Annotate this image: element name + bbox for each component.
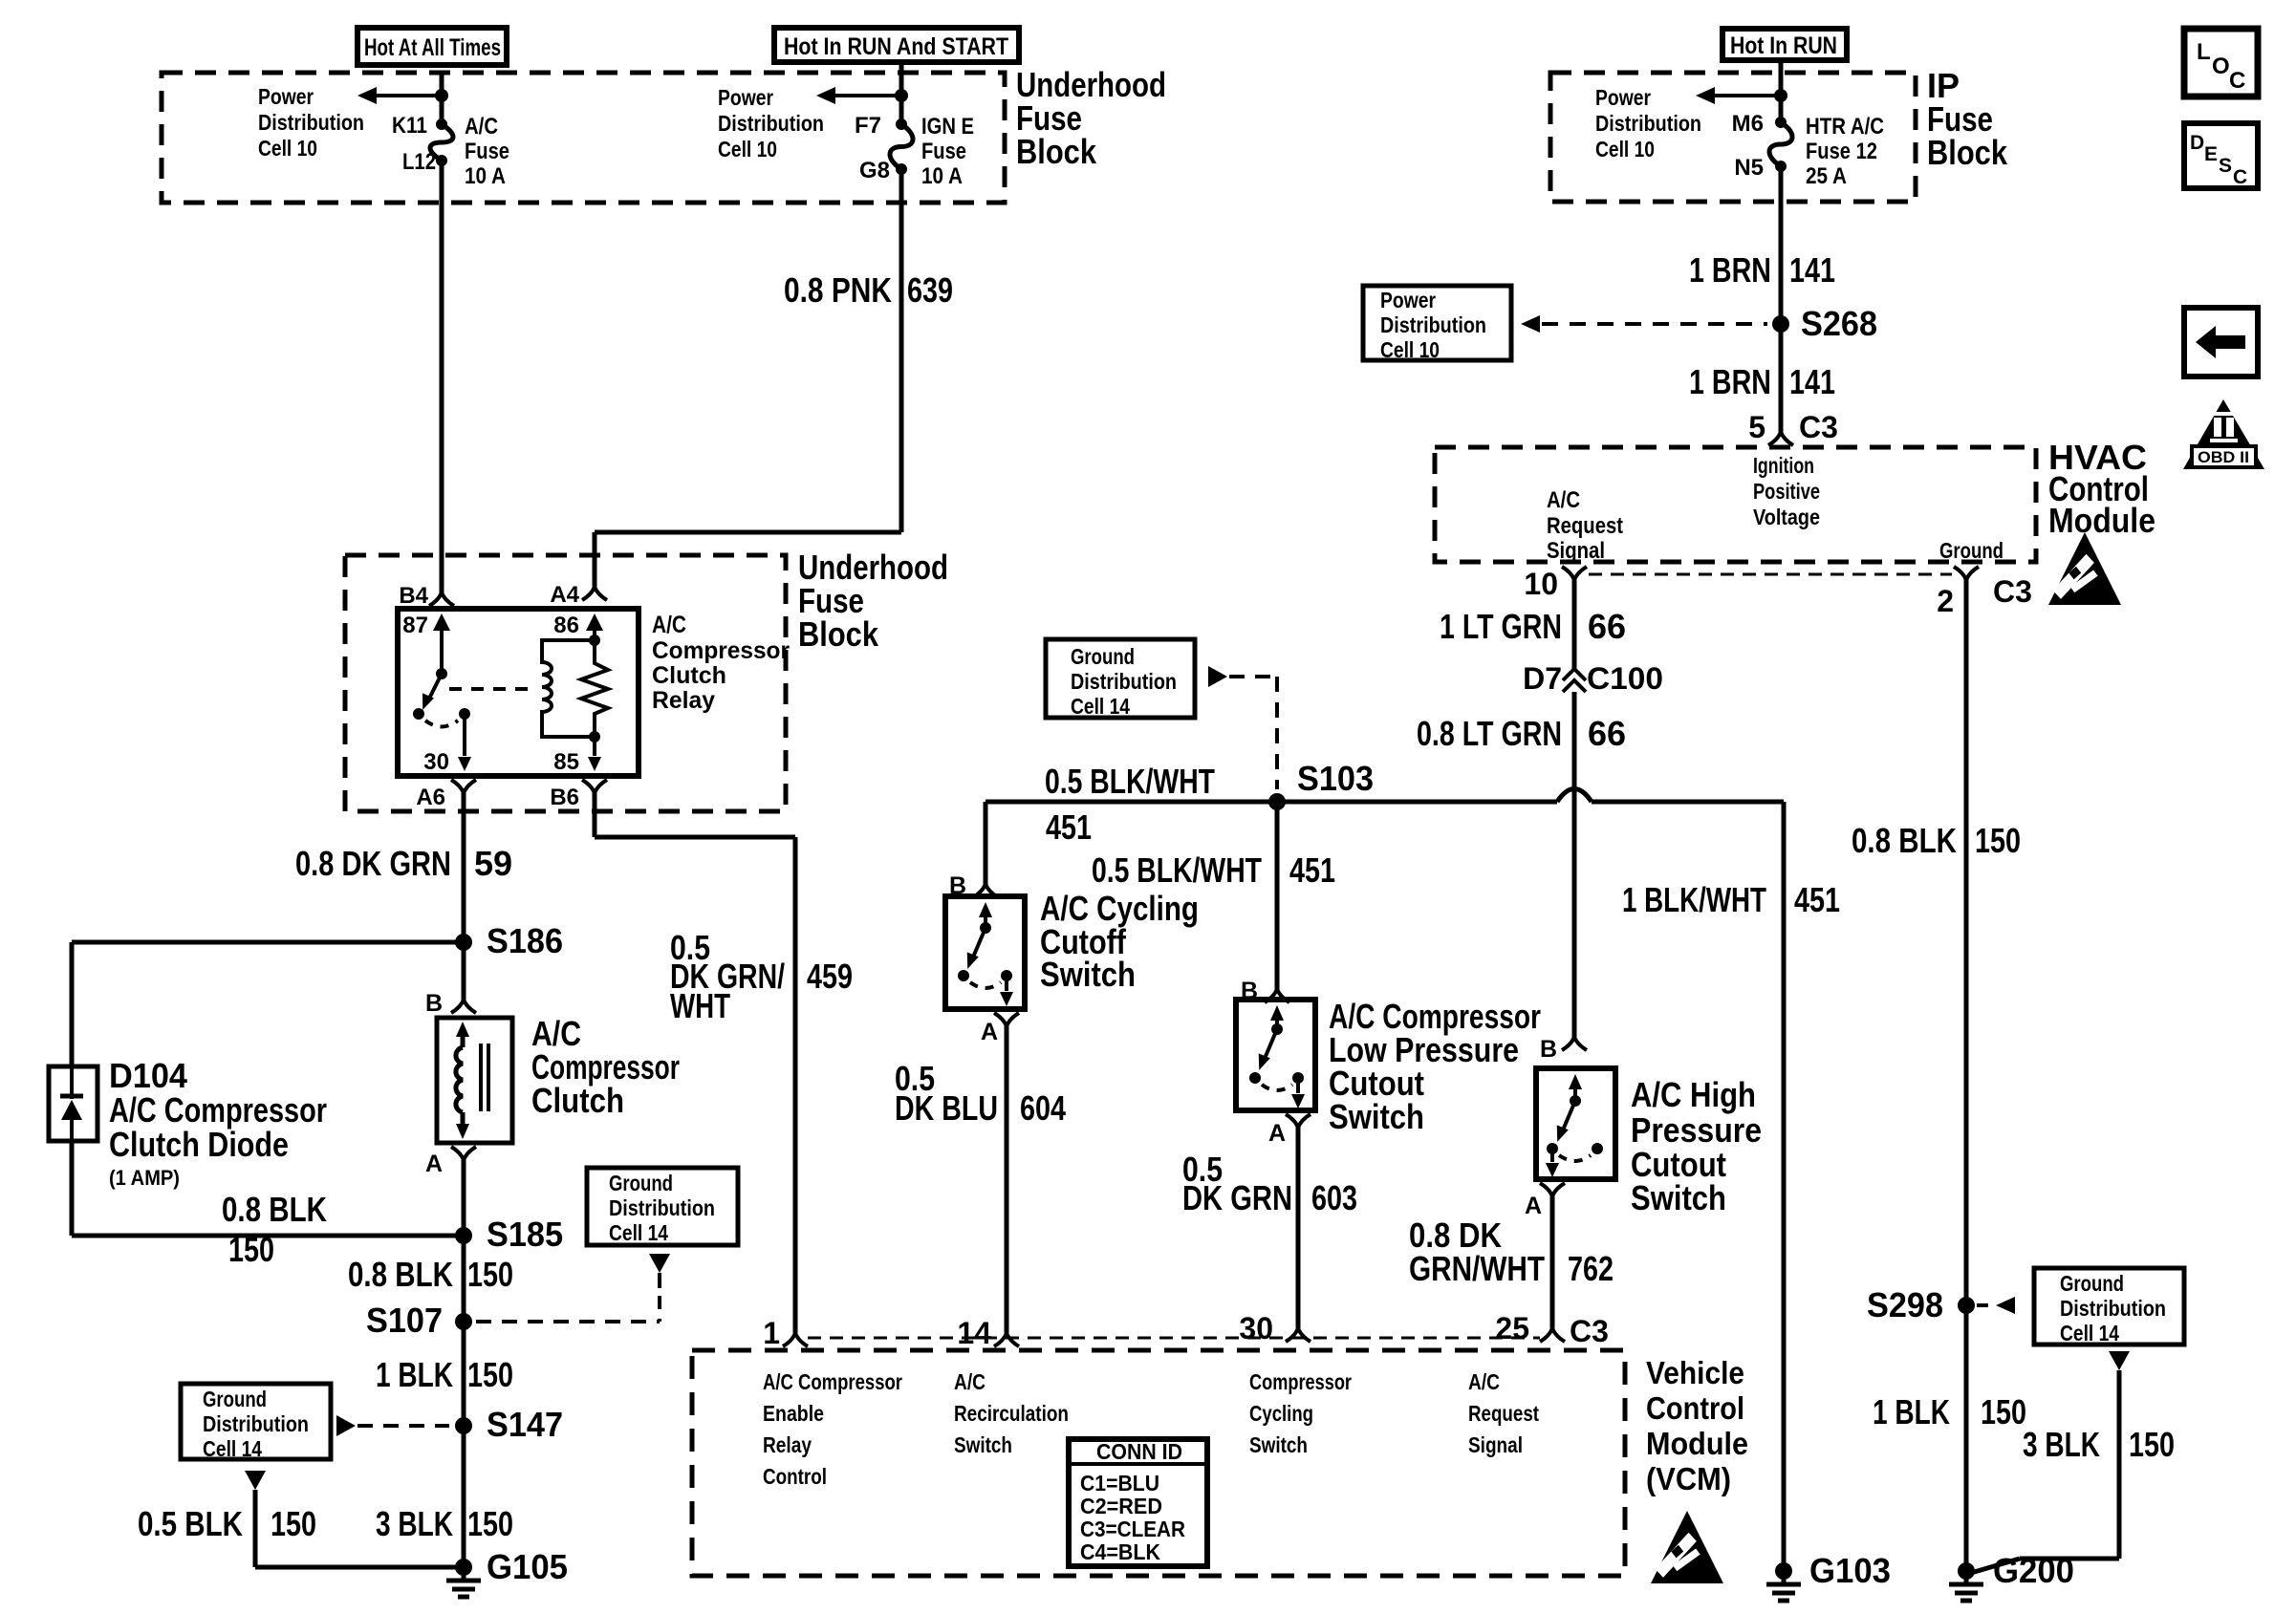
svg-text:B: B [1540,1036,1557,1063]
wire high pressure switch to VCM pin 25 (0.8 DK GRN/WHT 762) [1550,1196,1555,1328]
svg-text:Vehicle: Vehicle [1646,1355,1744,1390]
svg-text:Distribution: Distribution [1595,111,1701,136]
svg-text:Distribution: Distribution [1380,312,1486,337]
pin 10 connector [1562,567,1574,580]
svg-text:Clutch: Clutch [652,662,726,689]
wire junction to fuse pin K11 [440,96,444,124]
connector pin B low pressure switch [1265,989,1277,1002]
wire 0.8 PNK 639 from G8 to relay A4 [899,169,904,532]
wire junction to fuse pin M6 [1779,96,1784,122]
wire 0.8 BLK 150 HVAC pin 2 to S298 [1964,580,1969,1305]
fuse F-AC A/C Fuse 10A [436,118,447,130]
svg-text:S: S [2219,155,2232,177]
svg-text:141: 141 [1789,250,1835,290]
connector pin 25 C3 into VCM [1540,1328,1552,1342]
wire S298 to G200 (1 BLK 150) [1964,1305,1969,1571]
svg-text:Cell 10: Cell 10 [718,137,777,161]
svg-text:(1 AMP): (1 AMP) [109,1166,180,1190]
svg-text:Control: Control [1646,1390,1744,1426]
wire hot feed to A/C fuse [440,73,444,96]
wire hot feed to HTR A/C fuse [1779,60,1784,96]
svg-text:GRN/WHT: GRN/WHT [1409,1249,1545,1288]
svg-text:K11: K11 [392,113,427,139]
svg-text:0.5 BLK/WHT: 0.5 BLK/WHT [1092,850,1262,890]
svg-text:CONN ID: CONN ID [1096,1439,1182,1464]
splice S185 [455,1227,472,1244]
splice S268 [1772,315,1789,333]
dashed link S103 to ground distribution box [1208,666,1227,687]
label Hot At All Times [364,34,501,61]
label Hot In RUN And START [784,33,1008,60]
svg-text:2: 2 [1937,584,1954,618]
svg-text:DK GRN: DK GRN [1182,1178,1292,1217]
svg-text:66: 66 [1588,714,1626,753]
underhood fuse block dashed box [162,73,1005,203]
dashed link S147 to ground distribution box [336,1415,356,1436]
label Compressor Cycling Switch [1249,1369,1352,1457]
arrow to power distribution (IGN E) [835,94,901,97]
label A/C Request Signal (HVAC) [1547,487,1623,564]
reference box Ground Distribution Cell 14 (S298) [2034,1268,2184,1345]
clutch coil symbol [456,1022,469,1037]
svg-text:M6: M6 [1732,111,1764,137]
svg-text:30: 30 [1239,1311,1273,1345]
pin G8 [859,158,890,183]
svg-text:Ground: Ground [1939,538,2004,563]
svg-text:Switch: Switch [1249,1432,1308,1457]
svg-text:Compressor: Compressor [652,637,790,664]
svg-text:Module: Module [1646,1426,1748,1461]
svg-text:A/C: A/C [652,612,686,638]
inline connector C100 pin D7 [1563,669,1586,680]
svg-text:Ground: Ground [1071,644,1135,669]
label Underhood Fuse Block (relay) [798,548,948,654]
svg-text:150: 150 [1981,1392,2026,1431]
svg-text:A6: A6 [416,785,445,810]
relay pin 30 arrow [463,714,466,756]
underhood fuse block dashed box (relay) [345,555,786,811]
svg-text:A/C Compressor: A/C Compressor [109,1090,327,1130]
svg-text:Power: Power [258,84,314,109]
svg-text:Power: Power [1380,288,1436,312]
header box Hot In RUN [1722,29,1847,60]
svg-text:0.8 PNK: 0.8 PNK [784,270,892,310]
svg-text:C100: C100 [1587,661,1663,696]
splice S103 [1268,793,1286,810]
HVAC control module dashed box [1435,447,2036,562]
label D104 A/C Compressor Clutch Diode (1 AMP) [109,1056,327,1190]
svg-text:C3: C3 [1570,1314,1609,1348]
svg-text:Distribution: Distribution [2060,1296,2166,1321]
label 0.8 BLK 150 diode leg [222,1190,327,1269]
icon LOC box [2184,29,2258,97]
relay pin 85 arrow [593,737,596,756]
svg-text:Request: Request [1468,1401,1539,1426]
svg-text:639: 639 [907,270,953,310]
svg-text:OBD II: OBD II [2198,448,2249,466]
svg-text:C3=CLEAR: C3=CLEAR [1080,1517,1185,1541]
relay coil junction 85 [589,731,600,742]
relay mechanical link dashed [449,687,531,691]
svg-text:451: 451 [1289,850,1335,890]
svg-text:0.8 DK GRN: 0.8 DK GRN [295,844,451,883]
svg-text:Voltage: Voltage [1753,505,1820,529]
value label IGN E Fuse 10 A [921,114,974,189]
fuse F12 HTR A/C Fuse 25A [1775,117,1787,128]
svg-text:87: 87 [402,613,428,638]
svg-text:Distribution: Distribution [258,110,364,135]
connector pin A clutch [451,1147,464,1160]
svg-text:F7: F7 [855,113,881,139]
svg-text:G200: G200 [1993,1551,2074,1590]
svg-text:Cell 14: Cell 14 [1071,694,1130,719]
svg-text:G103: G103 [1809,1551,1891,1590]
VCM connector dashed line [808,1337,1540,1340]
svg-text:86: 86 [553,613,579,638]
wire A/C fuse L12 to relay B4 [440,161,444,592]
svg-text:10 A: 10 A [465,163,506,189]
svg-text:Recirculation: Recirculation [954,1401,1069,1426]
relay K-AC A/C Compressor Clutch Relay box [398,609,639,776]
svg-text:(VCM): (VCM) [1646,1461,1731,1496]
connector pin 14 into VCM [994,1333,1007,1346]
splice S186 [455,934,472,951]
reference box Ground Distribution Cell 14 (S147) [181,1384,331,1459]
svg-text:0.5 BLK: 0.5 BLK [138,1504,243,1543]
relay coil [542,640,595,737]
wire S186 branch to diode [72,940,464,945]
svg-text:150: 150 [228,1230,274,1269]
svg-text:HTR A/C: HTR A/C [1806,114,1884,140]
svg-text:D: D [2190,132,2204,154]
node junction at HTR A/C fuse [1774,89,1787,102]
svg-text:Fuse: Fuse [921,139,966,164]
label 0.5 BLK/WHT 451 left [1045,762,1215,847]
svg-text:Pressure: Pressure [1631,1110,1762,1150]
svg-text:A/C High: A/C High [1631,1075,1756,1114]
svg-text:G105: G105 [487,1547,568,1586]
svg-text:66: 66 [1588,607,1626,646]
vehicle control module dashed box [692,1350,1625,1576]
svg-text:A4: A4 [550,582,579,608]
svg-text:Switch: Switch [1329,1097,1424,1136]
relay switch common contact [436,668,447,679]
svg-text:Clutch: Clutch [531,1081,624,1120]
svg-text:Ignition: Ignition [1753,453,1814,478]
label A/C Compressor Clutch [531,1014,680,1120]
svg-text:Ground: Ground [203,1387,267,1411]
svg-text:A: A [1525,1193,1542,1219]
relay switch contact to pin 30 [413,708,424,720]
svg-text:59: 59 [474,844,512,883]
svg-text:A/C: A/C [954,1369,986,1394]
svg-text:B4: B4 [399,583,428,609]
svg-text:0.8 BLK: 0.8 BLK [348,1255,453,1294]
svg-text:Block: Block [1016,132,1097,171]
wire diode to S185 (0.8 BLK 150) [70,1141,75,1236]
svg-text:1 BLK: 1 BLK [1873,1392,1950,1431]
pin N5 [1734,155,1764,181]
svg-text:150: 150 [271,1504,316,1543]
svg-text:L: L [2197,39,2211,65]
svg-text:Request: Request [1547,513,1623,539]
connector pin A low pressure switch [1286,1114,1298,1128]
svg-text:S186: S186 [487,921,563,960]
svg-text:C: C [2233,166,2247,188]
high pressure switch contacts [1569,1074,1582,1089]
label A/C Compressor Low Pressure Cutout Switch [1329,997,1541,1136]
ESD symbol VCM [1651,1511,1723,1583]
svg-text:14: 14 [957,1316,991,1350]
svg-text:1 BRN: 1 BRN [1689,362,1771,401]
wire 1 BLK/WHT 451 to G103 [1782,802,1787,1571]
label IP Fuse Block [1927,66,2008,172]
svg-text:S298: S298 [1867,1285,1943,1324]
svg-text:150: 150 [467,1504,513,1543]
high pressure cutout switch box [1536,1068,1615,1179]
wire 0.8 LT GRN 66 to high pressure switch [1572,692,1577,1037]
svg-text:A: A [1268,1120,1286,1147]
label Hot In RUN [1730,32,1837,59]
svg-text:0.8 BLK: 0.8 BLK [222,1190,327,1229]
connector pin B clutch [451,1000,464,1013]
splice S147 [455,1417,472,1434]
wire S103 to low pressure switch (0.5 BLK/WHT 451) [1275,802,1280,989]
wire S107 to S147 (1 BLK 150) [462,1322,466,1426]
wire hot feed to IGN E fuse [899,62,904,96]
svg-text:150: 150 [467,1355,513,1394]
svg-text:S107: S107 [366,1301,443,1340]
value label A/C Fuse 10 A [465,114,509,189]
connector pin B high pressure switch [1562,1037,1574,1050]
svg-text:B6: B6 [550,785,579,810]
wire junction to fuse pin F7 [899,96,904,124]
connector pin 30 into VCM [1286,1328,1298,1342]
label 0.8 LT GRN 66 [1417,714,1626,753]
svg-text:459: 459 [807,957,853,996]
label Ground (HVAC pin 2) [1939,538,2004,563]
svg-text:A/C: A/C [1468,1369,1500,1394]
label 0.8 PNK 639 [784,270,953,310]
label Vehicle Control Module (VCM) [1646,1355,1748,1496]
fuse F-IGNE IGN E Fuse 10A [896,118,907,130]
svg-text:Clutch Diode: Clutch Diode [109,1125,289,1164]
svg-text:Cell 10: Cell 10 [1380,337,1440,362]
wire S185 to S107 (0.8 BLK 150) [462,1236,466,1322]
svg-text:0.8 LT GRN: 0.8 LT GRN [1417,714,1562,753]
svg-text:0.8 BLK: 0.8 BLK [1852,821,1957,860]
svg-text:85: 85 [553,749,579,775]
svg-text:C: C [2229,68,2245,94]
svg-text:Hot In RUN: Hot In RUN [1730,32,1837,59]
svg-text:D104: D104 [109,1056,187,1095]
svg-text:Fuse 12: Fuse 12 [1806,139,1877,164]
svg-text:B: B [425,990,443,1017]
svg-text:1 BRN: 1 BRN [1689,250,1771,290]
svg-text:Cell 14: Cell 14 [2060,1321,2119,1345]
svg-text:A: A [425,1151,443,1177]
wire S186 to clutch B [462,942,466,1000]
svg-text:141: 141 [1789,362,1835,401]
wire cycling switch to VCM pin 14 (0.5 DK BLU 604) [1005,1026,1009,1333]
reference box Power Distribution Cell 10 [1363,286,1511,360]
wire ground distribution to G105 (0.5 BLK 150) [245,1471,266,1490]
wire relay B6 to VCM pin 1 (0.5 DK GRN/WHT 459) [593,793,597,837]
dashed link S298 to ground distribution box [1977,1303,1994,1307]
dashed link S107 to ground distribution box [649,1254,670,1273]
wire low pressure switch to VCM pin 30 (0.5 DK GRN 603) [1296,1128,1301,1328]
connector pin B4 [429,592,442,606]
svg-text:WHT: WHT [670,986,730,1025]
svg-text:C3: C3 [1993,574,2032,609]
label A/C Compressor Clutch Relay [652,612,790,714]
svg-text:S185: S185 [487,1215,563,1254]
label Power Distribution Cell 10 (IGN E fuse) [718,85,824,161]
svg-text:O: O [2212,54,2230,79]
svg-text:Distribution: Distribution [609,1195,715,1220]
svg-text:25: 25 [1495,1311,1529,1345]
svg-text:Hot At All Times: Hot At All Times [364,34,501,61]
wire clutch A to S185 [462,1160,466,1236]
ground G103 [1775,1562,1792,1580]
label 1 BRN 141 lower [1689,362,1835,401]
svg-text:Distribution: Distribution [203,1411,309,1436]
relay pin 86 arrow [586,613,603,631]
svg-text:Signal: Signal [1468,1432,1523,1457]
relay resistor [581,640,608,737]
svg-text:C4=BLK: C4=BLK [1080,1539,1160,1564]
connector pin 1 into VCM [783,1333,795,1346]
svg-text:Cell 14: Cell 14 [609,1220,668,1245]
svg-text:451: 451 [1046,807,1092,847]
svg-text:A/C: A/C [1547,487,1580,513]
svg-text:30: 30 [423,749,449,775]
label A/C Request Signal (VCM) [1468,1369,1539,1457]
svg-text:L12: L12 [402,149,436,175]
reference box Ground Distribution Cell 14 (S103) [1046,639,1195,718]
label Underhood Fuse Block [1016,65,1166,171]
icon DESC box [2184,123,2258,188]
ground G105 [455,1559,472,1576]
svg-text:5: 5 [1748,410,1765,444]
diode D104 box [49,1066,97,1141]
splice S298 [1958,1297,1975,1314]
svg-text:Cycling: Cycling [1249,1401,1313,1426]
label A/C Compressor Enable Relay Control [763,1369,902,1489]
svg-text:Fuse: Fuse [465,139,509,164]
wire 1 LT GRN 66 from HVAC pin 10 [1572,580,1577,669]
svg-text:604: 604 [1020,1088,1066,1128]
svg-text:Control: Control [763,1464,827,1489]
label 0.8 DK GRN 59 [295,844,512,883]
A/C cycling cutoff switch box [945,896,1025,1009]
svg-text:3 BLK: 3 BLK [376,1504,453,1543]
svg-text:S103: S103 [1297,759,1374,798]
svg-text:Power: Power [1595,85,1651,110]
CONN ID table [1069,1439,1207,1566]
label 0.5 DK GRN/WHT 459 [670,928,853,1025]
svg-text:Switch: Switch [954,1432,1012,1457]
svg-text:1 LT GRN: 1 LT GRN [1440,607,1562,646]
label A/C High Pressure Cutout Switch [1631,1075,1762,1217]
connector pin B cycling switch [973,884,986,897]
svg-text:Compressor: Compressor [1249,1369,1352,1394]
ESD symbol HVAC [2048,532,2121,605]
svg-text:1 BLK: 1 BLK [376,1355,453,1394]
relay pin 87 arrow [433,613,450,631]
connector pin A4 [582,587,595,600]
svg-text:Switch: Switch [1040,955,1136,994]
svg-text:Signal: Signal [1547,538,1605,564]
label A/C Cycling Cutoff Switch [1040,889,1199,994]
svg-text:IGN E: IGN E [921,114,974,140]
cycling switch contacts [979,902,992,917]
A/C compressor clutch box [437,1018,512,1143]
splice S107 [455,1313,472,1330]
svg-text:A/C Compressor: A/C Compressor [763,1369,902,1394]
svg-text:451: 451 [1794,880,1840,919]
connector pin 5 C3 into HVAC [1768,432,1781,445]
svg-text:Positive: Positive [1753,479,1820,504]
svg-text:0.5 BLK/WHT: 0.5 BLK/WHT [1045,762,1215,801]
connector pin A high pressure switch [1540,1183,1552,1196]
node junction at IGN E fuse [895,89,908,102]
svg-text:Enable: Enable [763,1401,824,1426]
HVAC connector C3 dotted line [1589,573,1952,576]
svg-text:G8: G8 [859,158,890,183]
header box Hot At All Times [357,28,507,65]
svg-text:E: E [2204,143,2218,165]
svg-text:1: 1 [763,1316,780,1350]
svg-text:Relay: Relay [652,687,715,714]
svg-text:762: 762 [1568,1249,1614,1288]
svg-text:S147: S147 [487,1405,563,1444]
pin M6 [1732,111,1764,137]
svg-text:150: 150 [467,1255,513,1294]
value label HTR A/C Fuse 12 25 A [1806,114,1884,189]
svg-text:Distribution: Distribution [718,111,824,136]
wire 0.8 DK GRN 59 relay A6 to S186 [462,793,466,942]
svg-text:10 A: 10 A [921,163,963,189]
icon back-arrow box [2184,308,2258,377]
label 1 BLK/WHT 451 [1622,880,1840,919]
wire ground distribution to G200 (3 BLK 150) [2109,1351,2130,1370]
label HVAC Control Module [2048,438,2155,540]
svg-text:Block: Block [1927,133,2008,172]
connector pin A cycling switch [994,1013,1007,1026]
svg-text:25 A: 25 A [1806,163,1847,189]
svg-text:3 BLK: 3 BLK [2023,1425,2100,1464]
wire 1 BRN 141 from N5 to S268 [1779,166,1784,432]
header box Hot In RUN And START [774,28,1019,62]
wire S147 to G105 (3 BLK 150) [462,1426,466,1567]
pin 2 connector [1954,567,1966,580]
svg-text:Relay: Relay [763,1432,812,1457]
icon OBD II triangle [2183,399,2264,469]
reference box Ground Distribution Cell 14 (S107) [587,1168,738,1245]
svg-text:Cell 10: Cell 10 [258,136,317,161]
svg-text:Block: Block [798,614,879,654]
svg-text:150: 150 [1975,821,2021,860]
svg-text:10: 10 [1524,567,1558,601]
pin L12 [402,149,436,175]
svg-text:1 BLK/WHT: 1 BLK/WHT [1622,880,1766,919]
low pressure switch contacts [1270,1005,1284,1021]
svg-text:C1=BLU: C1=BLU [1080,1471,1159,1496]
svg-text:Cell 10: Cell 10 [1595,137,1655,161]
label 1 LT GRN 66 [1440,607,1626,646]
relay coil junction 86 [589,635,600,646]
